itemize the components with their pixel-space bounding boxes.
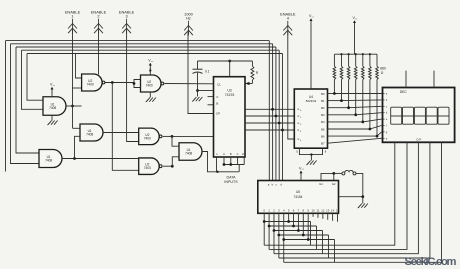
wire ENABLE 2 vertical (98, 30, 100, 75)
junction ENABLE1 / U1a output (71, 105, 74, 108)
junction digit 5 at output 4 (282, 238, 285, 241)
wire U5 unused output 13 stub (327, 213, 329, 220)
junction QA to decoder input line (271, 108, 274, 111)
wire bus line 2 horizontal (11, 43, 273, 45)
junction B1 pull-up (340, 99, 343, 102)
wire U3 output QB to U4 A1 (245, 115, 294, 117)
vcc pull-up rail (352, 16, 358, 27)
svg-text:Ω: Ω (381, 71, 384, 75)
wire bus line 5 right vertical to decoder input (282, 54, 284, 181)
svg-text:680: 680 (380, 67, 386, 71)
wire digit 4 staircase drop (328, 235, 330, 258)
wire U5 unused output 11 stub (317, 213, 319, 218)
vcc U1a pin 14 (50, 83, 56, 94)
svg-text:7400: 7400 (144, 136, 151, 140)
wire digit 5 pair line (284, 239, 335, 241)
svg-text:7400: 7400 (87, 83, 94, 87)
svg-text:A: A (223, 152, 225, 156)
svg-text:13: 13 (326, 208, 330, 212)
resistor 680 ohm pull-up 6 (376, 54, 379, 136)
svg-text:B3: B3 (321, 113, 325, 117)
junction digit 1 at output 0 (263, 220, 266, 223)
digit 5 seven-segment outline (438, 107, 449, 124)
ground pushbutton (358, 197, 368, 208)
wire bus line 1 left vertical (5, 41, 7, 172)
connector ENABLE 3 (119, 9, 135, 33)
wire vcc to U1a (51, 92, 53, 97)
svg-text:7408: 7408 (185, 152, 192, 156)
wire pushbutton to ground (356, 173, 363, 196)
junction QD to decoder input line (281, 129, 284, 132)
vcc U5 (299, 166, 305, 177)
junction U1d output (73, 157, 76, 160)
wire bus line 4 right vertical to decoder input (278, 50, 280, 180)
wire capacitor junction to U3 (198, 90, 214, 92)
wire digit 2 bottom bus to display (269, 142, 407, 249)
svg-text:S: S (296, 150, 298, 154)
resistor 680 ohm pull-up 2 (347, 53, 350, 108)
wire bus line 5 left vertical to U1a upper input (27, 54, 43, 101)
decoder U5 74154 (258, 181, 339, 214)
wire bus line 5 horizontal (27, 53, 283, 55)
svg-text:B4: B4 (321, 120, 325, 124)
wire bus line 3 horizontal (16, 46, 276, 48)
resistor 680 ohm pull-up 4 (362, 53, 365, 122)
wire digit 1 pair line (264, 221, 310, 223)
connector ENABLE 2 (91, 9, 107, 33)
svg-text:U5: U5 (296, 190, 300, 194)
junction G1 G2 (332, 172, 335, 175)
svg-text:SeekIC.com: SeekIC.com (405, 256, 457, 268)
display segment pin labels (383, 93, 388, 141)
junction digit 1 at output 5 (287, 220, 290, 223)
svg-text:7400: 7400 (146, 84, 153, 88)
wire U1b output to U2c upper input (103, 132, 139, 134)
wire U5 G2 side to ground junction (339, 196, 363, 198)
wire U5 unused output 15 stub (337, 213, 339, 222)
wire U5 output 6 vertical (293, 213, 295, 226)
wire U4 B6 segment line to display (328, 135, 378, 137)
junction B5 pull-up (369, 128, 372, 131)
svg-text:B6: B6 (321, 134, 325, 138)
wire U5 output 3 vertical to digit bus (278, 213, 280, 258)
svg-text:7408: 7408 (49, 106, 56, 110)
wire digit 5 staircase drop (334, 240, 336, 263)
junction U2c output (171, 135, 174, 138)
wire U1a output (66, 105, 82, 107)
ground U4 strobe (306, 155, 316, 166)
wire U4 B3 segment line to display (328, 114, 356, 116)
svg-text:G2: G2 (332, 182, 336, 186)
prom U4 8223 (294, 89, 327, 148)
wire U4 B2 segment line to display (328, 107, 349, 109)
svg-text:14: 14 (331, 208, 335, 212)
wire U5 output 1 vertical to digit bus (268, 213, 270, 249)
resistor 680 ohm pull-up 5 (369, 53, 372, 129)
wire digit 2 pair line (269, 225, 316, 227)
wire U4 B7 line to display (328, 138, 382, 143)
wire digit 4 bottom bus to display (279, 142, 430, 258)
junction U2b input (133, 82, 136, 85)
wire U5 output 2 vertical to digit bus (273, 213, 275, 253)
wire U5 output 8 vertical (302, 213, 304, 235)
junction U2a output branch (111, 81, 114, 84)
junction capacitor / ground / U3 CL2 (196, 89, 199, 92)
svg-text:B5: B5 (321, 127, 325, 131)
wire digit 4 pair line (279, 234, 329, 236)
wire U2c output (163, 135, 172, 137)
wire digit 2 staircase drop (316, 226, 318, 249)
ground capacitor (192, 91, 202, 102)
label 680 ohm (380, 67, 386, 76)
resistor 680 ohm pull-up 1 (340, 53, 343, 100)
label data inputs (224, 176, 238, 184)
wire U3 B pin stub (208, 104, 214, 106)
junction clock rail (228, 60, 231, 63)
svg-text:CP: CP (216, 112, 220, 116)
wire U3 C pin stub (208, 96, 214, 98)
wire U2c output to U3 left pin (172, 135, 214, 137)
and U1d 7408 (39, 150, 62, 168)
svg-text:C: C (237, 152, 239, 156)
wire U5 output 5 vertical (288, 213, 290, 221)
wire branch up to U1b lower input (75, 136, 81, 158)
wire U3 data input ladder (216, 157, 244, 173)
display anode stubs top (406, 71, 434, 88)
junction B3 pull-up (354, 113, 357, 116)
junction digit 5 at output 9 (307, 238, 310, 241)
svg-text:B2: B2 (321, 106, 325, 110)
svg-text:7408: 7408 (86, 133, 93, 137)
svg-text:7408: 7408 (45, 159, 52, 163)
wire U5 output 0 vertical to digit bus (263, 213, 265, 245)
svg-text:1: 1 (71, 14, 73, 19)
svg-text:G1: G1 (319, 182, 323, 186)
wire vcc to rail (354, 26, 356, 54)
wire G1 up and over (321, 173, 334, 180)
wire U3 output QD to U4 A3 (245, 129, 294, 131)
wire U5 unused output 12 stub (322, 213, 324, 219)
wire U2a upper input (76, 54, 82, 79)
junction B4 pull-up (361, 121, 364, 124)
wire 1000 Hz vertical to U3 CP (188, 32, 214, 114)
wire digit 3 pair line (274, 230, 323, 232)
svg-text:B0: B0 (321, 92, 325, 96)
svg-text:U4: U4 (309, 95, 313, 99)
resistor R1 at U3 (251, 61, 259, 84)
nand U2d 7400 (139, 158, 162, 175)
wire bus line 2 right vertical to decoder input (272, 44, 274, 181)
wire vcc to U2b (149, 68, 151, 75)
svg-text:15: 15 (336, 208, 340, 212)
nand U2a 7400 (82, 74, 105, 91)
junction digit 2 at output 1 (268, 225, 271, 228)
wire U3 output QC to U4 A2 (245, 122, 294, 124)
wire digit 1 staircase drop (310, 222, 312, 246)
connector ENABLE 4 (280, 11, 296, 35)
wire digit 3 staircase drop (322, 231, 324, 254)
vcc U4 (309, 14, 315, 25)
svg-text:D.P.: D.P. (416, 138, 421, 142)
junction QC to decoder input line (278, 122, 281, 125)
wire U5 output 7 vertical (297, 213, 299, 230)
junction digit 3 at output 2 (273, 229, 276, 232)
wire bus line 4 left vertical to U1a lower input (22, 50, 44, 109)
svg-text:0.1: 0.1 (205, 70, 210, 74)
wire digit 3 bottom bus to display (274, 142, 418, 253)
svg-text:12: 12 (321, 208, 325, 212)
wire bus line 3 left vertical to U1d upper input (16, 47, 39, 153)
wire U4 B4 segment line to display (328, 121, 363, 123)
vcc U2b pin 14 (148, 59, 154, 70)
svg-text:B: B (230, 152, 232, 156)
digit 4 seven-segment outline (426, 107, 437, 124)
wire U4 B1 segment line to display (328, 100, 342, 102)
wire U2a output to U2b inputs (105, 82, 134, 84)
wire U5 unused output 10 stub (312, 213, 314, 217)
wire ENABLE 1 vertical (72, 30, 74, 128)
resistor 680 ohm pull-up 3 (354, 53, 357, 115)
wire branch down to U2d lower input (112, 83, 138, 171)
wire U4 B0 segment line to display (328, 93, 335, 95)
ground U2b pin 7 (149, 92, 151, 98)
digit 3 seven-segment outline (414, 107, 425, 124)
svg-text:B1: B1 (321, 99, 325, 103)
svg-text:Hz: Hz (186, 16, 191, 21)
wire pull-up rail (334, 53, 377, 55)
capacitor C1 0.1 (193, 61, 210, 91)
svg-text:10: 10 (312, 208, 316, 212)
wire U5 output 9 vertical (307, 213, 309, 239)
wire U3 top riser (229, 61, 231, 77)
resistor 680 ohm pull-up 0 (333, 54, 336, 93)
wire clock rail capacitor to resistor (198, 60, 253, 62)
svg-text:CL: CL (217, 83, 221, 87)
wire U2d output (163, 165, 173, 167)
wire ENABLE1 to U1b upper input (73, 127, 81, 129)
pushbutton S1 (334, 170, 356, 174)
nand U2b 7400 inputs tied (141, 75, 164, 92)
wire vcc to U4 top (310, 24, 312, 89)
wire U2b tied input bar (134, 80, 141, 88)
and U1b 7408 (80, 124, 103, 141)
svg-text:74193: 74193 (225, 93, 235, 97)
svg-text:7400: 7400 (144, 166, 151, 170)
wire U2d output to U1c lower input (172, 157, 179, 166)
counter U3 74193 (214, 77, 246, 157)
wire U5 output 4 vertical to digit bus (283, 213, 285, 262)
junction digit 4 at output 3 (277, 234, 280, 237)
wire U4 strobe pins to ground (296, 148, 327, 154)
wire ENABLE 4 vertical to U4 A4 (288, 32, 295, 139)
and U1a 7408 (43, 97, 66, 116)
svg-text:B: B (216, 102, 218, 106)
svg-text:INPUTS: INPUTS (224, 180, 238, 184)
and U1c 7408 (179, 143, 202, 161)
svg-text:3: 3 (126, 14, 128, 19)
wire U5 unused output 14 stub (332, 213, 334, 221)
svg-text:74154: 74154 (294, 195, 303, 199)
wire vcc to U5 (300, 177, 302, 181)
digit 2 seven-segment outline (403, 107, 414, 124)
wire bus line 1 horizontal (6, 40, 270, 42)
wire bus line 1 right vertical to decoder input (268, 41, 270, 181)
wire U3 output QA to U4 A0 (245, 108, 294, 110)
svg-text:DEC: DEC (400, 90, 408, 94)
junction B0 pull-up (333, 92, 336, 95)
wire bus line 3 right vertical to decoder input (275, 47, 277, 181)
wire ENABLE 1 tap to U2a lower input (73, 87, 82, 89)
display DEC 5-digit seven-segment (383, 88, 455, 143)
junction ground net (361, 195, 364, 198)
svg-text:2: 2 (97, 14, 99, 19)
junction U2d output (171, 165, 174, 168)
wire digit 1 bottom bus to display (264, 142, 395, 245)
svg-text:B7: B7 (321, 142, 325, 146)
junction digit 3 at output 7 (297, 229, 300, 232)
ground U1a pin 7 (51, 115, 53, 120)
wire U4 B5 segment line to display (328, 128, 370, 130)
connector 1000 Hz clock input (184, 11, 194, 35)
junction QB to decoder input line (275, 115, 278, 118)
junction B6 pull-up (376, 135, 379, 138)
junction B2 pull-up (347, 106, 350, 109)
wire bus line 2 left vertical to U1d lower input (11, 44, 40, 164)
digit 1 seven-segment outline (391, 107, 402, 124)
wire ENABLE 3 vertical to U2c lower input (127, 30, 139, 142)
junction digit 2 at output 6 (292, 225, 295, 228)
wire digit 5 bottom bus to display (284, 142, 442, 262)
wire U2b output to U3 CL (165, 83, 214, 85)
wire resistor to U3 right pin with arrowhead (245, 83, 252, 85)
junction strobe ground (310, 153, 312, 155)
svg-text:11: 11 (317, 208, 320, 212)
svg-text:D: D (242, 152, 244, 156)
wire U2c output to U1c upper input (172, 136, 179, 146)
junction digit 4 at output 8 (302, 234, 305, 237)
wire U1d output to U2d upper input (62, 158, 139, 160)
wire G2 up (333, 173, 335, 180)
connector ENABLE 1 (65, 9, 81, 33)
U5 output pin numbers (263, 208, 339, 212)
svg-text:8223/34: 8223/34 (306, 99, 317, 103)
nand U2c 7400 (139, 128, 162, 145)
wire U1c output to U3 data inputs (202, 152, 217, 172)
wire bus line 4 horizontal (22, 49, 280, 51)
